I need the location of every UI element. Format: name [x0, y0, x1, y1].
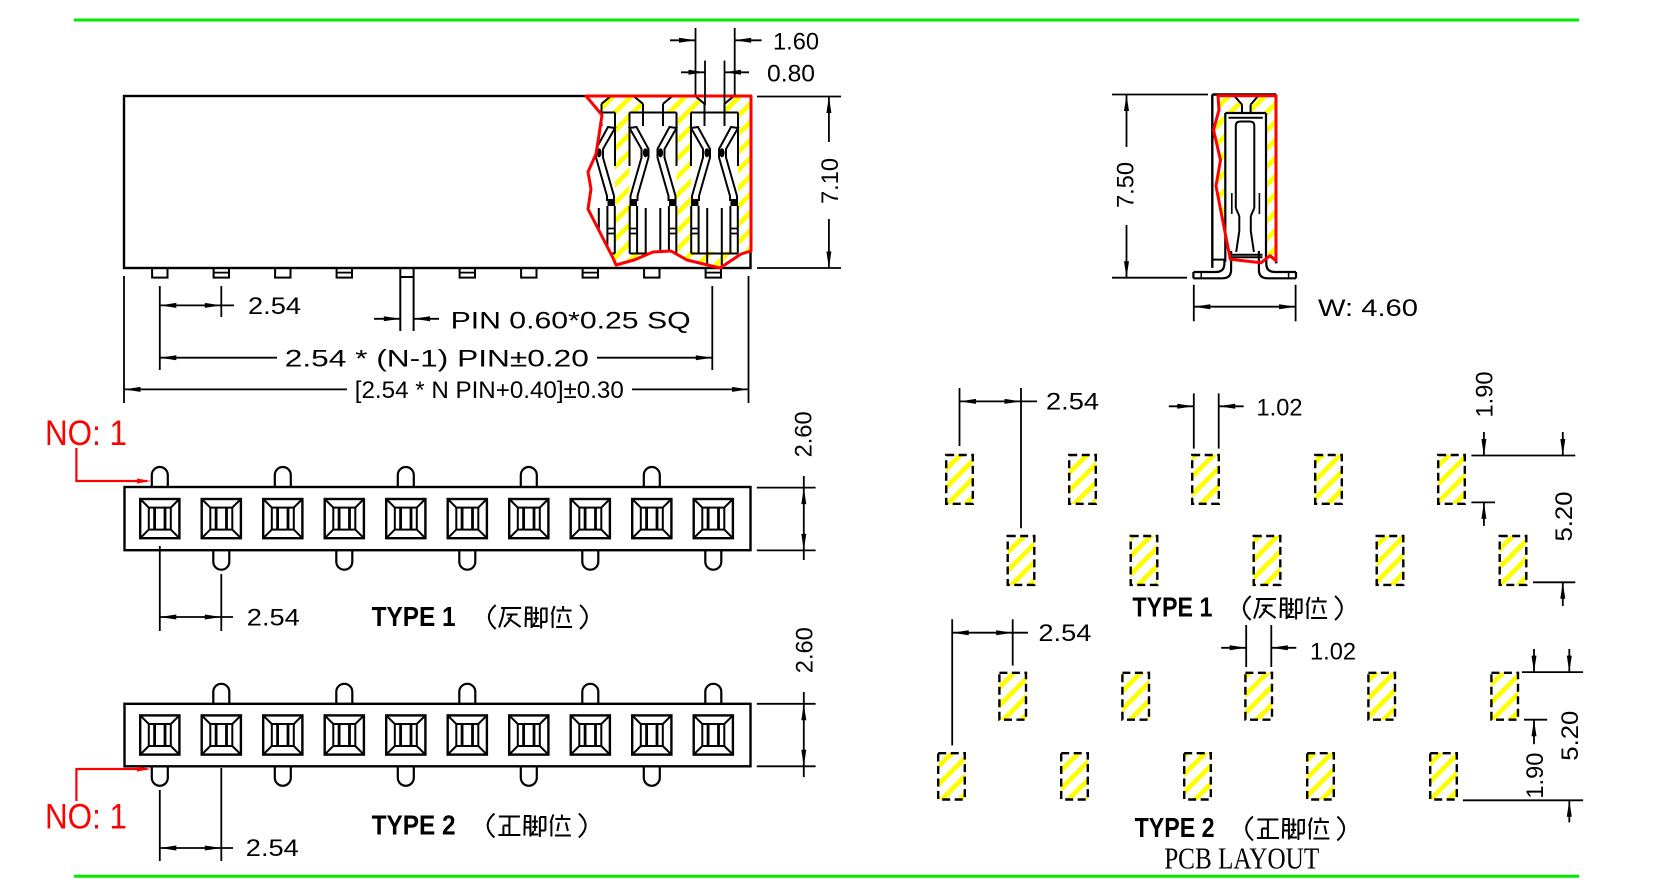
side view: cavity walls: [1224, 113, 1226, 262]
svg-text:NO: 1: NO: 1: [45, 414, 127, 453]
svg-text:TYPE 2: TYPE 2: [372, 810, 456, 841]
socket 10: [694, 715, 733, 754]
svg-text:1.90: 1.90: [1522, 753, 1549, 799]
socket 3: [263, 715, 302, 754]
svg-text:2.54: 2.54: [1038, 620, 1091, 647]
bottom pin tab at socket 8: [582, 550, 598, 570]
svg-text:TYPE 1: TYPE 1: [372, 601, 456, 632]
row body outline: [125, 487, 751, 550]
bottom pin tab at socket 7: [521, 766, 537, 786]
top view: pin 10: [706, 268, 721, 278]
bottom pin tab at socket 6: [459, 550, 475, 570]
svg-text:1.02: 1.02: [1310, 639, 1356, 666]
top pin tab at socket 8: [582, 684, 598, 704]
socket 8: [571, 715, 610, 754]
dimension 0.80 (slot width): [704, 61, 706, 105]
top view: pin 2: [214, 268, 229, 278]
bottom pin tab at socket 9: [644, 766, 660, 786]
green top border line: [74, 19, 1579, 22]
side view: right solder foot: [1259, 251, 1296, 278]
dimension 1.60 (funnel opening): [695, 28, 697, 95]
svg-text:5.20: 5.20: [1557, 711, 1584, 761]
dimension 2.54 (pin pitch, top view): [159, 286, 161, 370]
side view: body walls: [1212, 93, 1276, 95]
pad T2 bottom 4: [1307, 753, 1334, 799]
socket 8: [571, 499, 610, 538]
pad T1 bottom 3: [1254, 536, 1281, 585]
pad T1 top 1: [946, 455, 973, 504]
svg-text:1.02: 1.02: [1257, 394, 1303, 421]
pad T2 bottom 1: [938, 753, 965, 799]
top pin tab at socket 9: [644, 467, 660, 487]
socket 3: [263, 499, 302, 538]
svg-text:PIN 0.60*0.25 SQ: PIN 0.60*0.25 SQ: [451, 307, 691, 334]
cutaway red break outline: [586, 96, 751, 268]
socket 4: [325, 499, 364, 538]
svg-text:5.20: 5.20: [1551, 492, 1578, 542]
label (正脚位) PCB: [1246, 817, 1253, 841]
svg-text:2.60: 2.60: [792, 627, 819, 673]
socket 10: [694, 499, 733, 538]
dimension 2.54 (TYPE 1 row): [159, 546, 161, 631]
pad T2 top 3: [1245, 673, 1272, 720]
row body outline: [125, 704, 751, 767]
side view: red break outline: [1214, 96, 1277, 263]
svg-text:2.60: 2.60: [791, 411, 818, 457]
svg-text:2.54: 2.54: [1046, 389, 1099, 416]
socket 2: [202, 715, 241, 754]
svg-text:TYPE 2: TYPE 2: [1135, 812, 1215, 843]
pad T2 bottom 5: [1430, 753, 1457, 799]
dimension 2.60 (TYPE 2 row): [757, 703, 816, 705]
svg-text:0.80: 0.80: [767, 61, 815, 88]
bottom pin tab at socket 4: [336, 550, 352, 570]
socket 7: [509, 499, 548, 538]
dimension 2.54 * (N-1) PIN±0.20: [711, 286, 713, 370]
bottom pin tab at socket 10: [705, 550, 721, 570]
dimension 2.54 (PCB T1): [959, 388, 961, 446]
bottom pin tab at socket 2: [213, 550, 229, 570]
green bottom border line: [74, 875, 1579, 878]
pad T1 top 5: [1438, 455, 1465, 504]
top pin tab at socket 3: [275, 467, 291, 487]
dimension 2.60 (TYPE 1 row): [757, 487, 816, 489]
top view: connector body outline: [124, 96, 751, 268]
label (正脚位) row: [488, 814, 495, 838]
bottom pin tab at socket 5: [398, 766, 414, 786]
svg-text:2.54: 2.54: [246, 835, 299, 862]
dimension 1.90 (PCB T1): [1471, 455, 1575, 457]
cutaway cell at x=714.5: [695, 96, 734, 113]
top view: pin 4: [337, 268, 352, 278]
leader: PIN 0.60*0.25 SQ: [374, 318, 400, 320]
svg-text:W: 4.60: W: 4.60: [1318, 295, 1418, 322]
label (反脚位) PCB: [1244, 596, 1251, 620]
pad T1 top 3: [1192, 455, 1219, 504]
socket 6: [448, 715, 487, 754]
top pin tab at socket 1: [152, 467, 168, 487]
svg-text:7.50: 7.50: [1113, 162, 1140, 208]
socket 5: [386, 715, 425, 754]
svg-text:PCB LAYOUT: PCB LAYOUT: [1164, 841, 1319, 876]
top view: pin 9: [644, 268, 659, 278]
top pin tab at socket 5: [398, 467, 414, 487]
svg-text:1.90: 1.90: [1471, 372, 1498, 418]
svg-text:1.60: 1.60: [773, 29, 819, 56]
svg-text:7.10: 7.10: [817, 158, 844, 204]
bottom pin tab at socket 1: [152, 766, 168, 786]
top view: cutaway hatched section with contacts: [568, 96, 751, 268]
pad T1 bottom 5: [1500, 536, 1527, 585]
pad T1 bottom 4: [1377, 536, 1404, 585]
pad T2 top 2: [1122, 673, 1149, 720]
svg-text:TYPE 1: TYPE 1: [1132, 592, 1212, 623]
side view: left solder foot: [1193, 251, 1231, 278]
dimension [2.54 * N PIN+0.40]±0.30: [123, 276, 125, 403]
side view: hatched cut region: [1214, 96, 1277, 263]
top pin tab at socket 7: [521, 467, 537, 487]
top view: dimensioned pin 5 (long): [399, 268, 401, 331]
top pin tab at socket 4: [336, 684, 352, 704]
dimension 7.50 (side view height): [1112, 94, 1208, 96]
socket 5: [386, 499, 425, 538]
dimension 5.20 (PCB T2): [1522, 671, 1583, 673]
cutaway cell at x=591.5: [572, 96, 611, 113]
pad T2 top 5: [1491, 673, 1518, 720]
pad T2 top 4: [1368, 673, 1395, 720]
top view: pin 6: [460, 268, 475, 278]
dimension 5.20 (PCB T1): [1533, 581, 1575, 583]
top pin tab at socket 10: [705, 684, 721, 704]
pad T1 bottom 2: [1131, 536, 1158, 585]
svg-text:2.54 * (N-1) PIN±0.20: 2.54 * (N-1) PIN±0.20: [285, 345, 589, 372]
socket 1: [140, 499, 179, 538]
pad T1 top 4: [1315, 455, 1342, 504]
socket 9: [632, 715, 671, 754]
cutaway cell at x=653.0: [634, 96, 673, 113]
socket 4: [325, 715, 364, 754]
side view: funnel: [1235, 96, 1242, 104]
top pin tab at socket 6: [459, 684, 475, 704]
socket 9: [632, 499, 671, 538]
top view: pin 1: [152, 268, 167, 278]
side view: contact: [1236, 122, 1255, 209]
pad T2 top 1: [999, 673, 1026, 720]
dimension W: 4.60: [1193, 285, 1195, 322]
pad T1 bottom 1: [1008, 536, 1035, 585]
top view: pin 3: [275, 268, 290, 278]
svg-text:2.54: 2.54: [247, 605, 300, 632]
pad T2 bottom 3: [1184, 753, 1211, 799]
socket 7: [509, 715, 548, 754]
pad T2 bottom 2: [1061, 753, 1088, 799]
svg-text:[2.54 * N PIN+0.40]±0.30: [2.54 * N PIN+0.40]±0.30: [355, 377, 624, 404]
dimension 1.02 (PCB T1): [1193, 393, 1195, 448]
socket 6: [448, 499, 487, 538]
dimension 1.02 (PCB T2): [1245, 625, 1247, 667]
top view: pin 8: [583, 268, 598, 278]
top view: pin 7: [521, 268, 536, 278]
pad T1 top 2: [1069, 455, 1096, 504]
bottom pin tab at socket 3: [275, 766, 291, 786]
top pin tab at socket 2: [213, 684, 229, 704]
dimension 7.10 (body height): [757, 96, 841, 98]
dimension 2.54 (TYPE 2 row): [159, 790, 161, 861]
socket 2: [202, 499, 241, 538]
svg-text:2.54: 2.54: [248, 293, 301, 320]
svg-text:NO: 1: NO: 1: [45, 798, 127, 837]
side view: foot segment ticks: [1200, 272, 1202, 278]
dimension 2.54 (PCB T2): [951, 619, 953, 745]
socket 1: [140, 715, 179, 754]
label (反脚位) row: [489, 605, 496, 629]
